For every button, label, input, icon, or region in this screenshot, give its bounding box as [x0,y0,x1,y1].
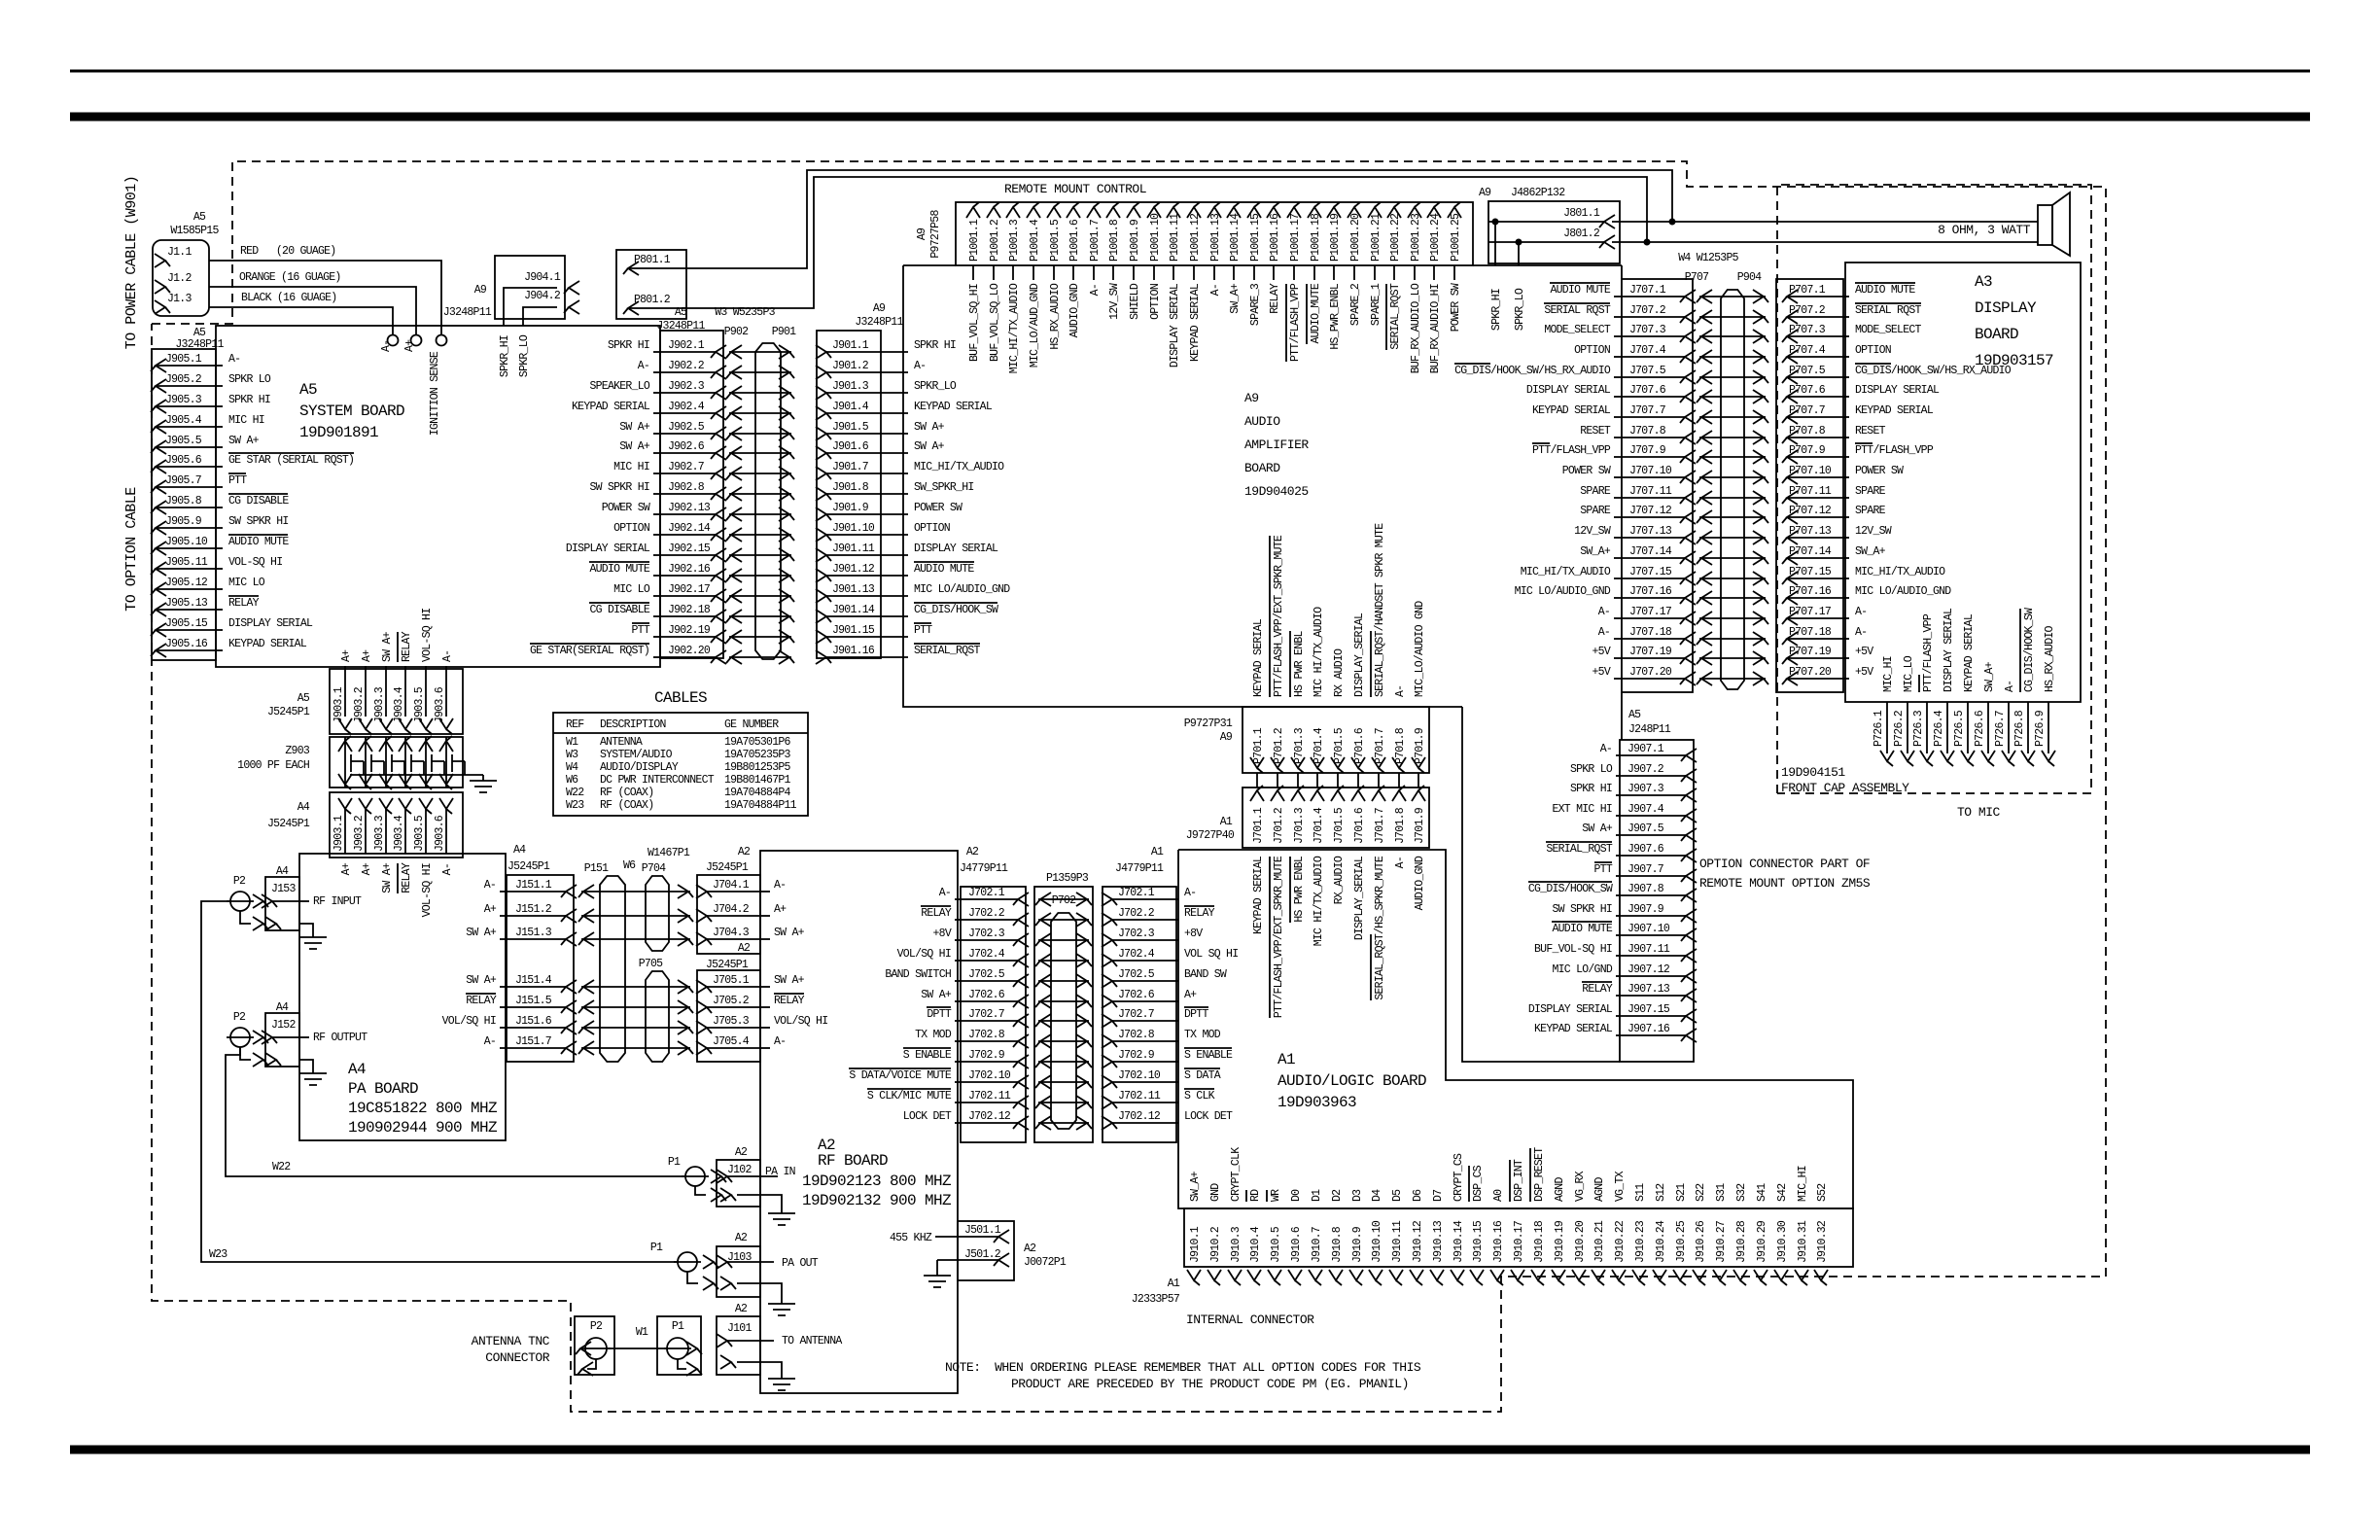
connector J152 RF OUTPUT [262,1001,367,1067]
svg-text:W23: W23 [209,1248,227,1261]
svg-text:J702.6: J702.6 [968,989,1005,1001]
svg-text:SHIELD: SHIELD [1129,283,1141,320]
svg-text:J151.4: J151.4 [515,974,552,987]
svg-text:D0: D0 [1290,1189,1303,1202]
wire S11 A1 to J910.23 [1634,1183,1647,1202]
svg-text:19A704884P4: 19A704884P4 [724,787,791,799]
svg-text:VG_RX: VG_RX [1574,1171,1587,1202]
svg-text:19A705301P6: 19A705301P6 [724,736,791,749]
svg-text:PTT/FLASH_VPP: PTT/FLASH_VPP [1855,444,1934,457]
svg-text:A9: A9 [474,284,487,297]
board A9 AUDIO AMPLIFIER BOARD 19D904025 [903,265,1622,1062]
svg-text:A-: A- [774,879,786,892]
wire DSP_INT A1 to J910.17 [1510,1159,1525,1202]
svg-text:OPTION: OPTION [1149,284,1162,320]
wire D0 A1 to J910.6 [1290,1189,1303,1202]
svg-text:J910.15: J910.15 [1472,1220,1485,1263]
svg-text:J705.3: J705.3 [713,1015,750,1028]
svg-text:A+: A+ [340,649,353,662]
connector J501 (A2 J0072P1) 455 KHZ [890,1221,1067,1280]
svg-text:J702.9: J702.9 [1118,1049,1155,1062]
svg-text:RELAY: RELAY [466,995,497,1007]
svg-text:+8V: +8V [933,927,952,940]
svg-text:P707.6: P707.6 [1789,384,1826,397]
svg-text:TX MOD: TX MOD [915,1029,952,1041]
svg-text:P801.1: P801.1 [634,254,671,266]
connector J702 (A1 J4729P11) [1102,887,1238,1142]
svg-text:ANTENNA: ANTENNA [600,736,643,749]
wire VOL-SQ HI into PA board [421,863,434,917]
svg-text:J702.8: J702.8 [1118,1029,1155,1041]
wire MIC_LO display board to P726.2 [1893,655,1915,766]
svg-text:J5245P1: J5245P1 [267,706,310,718]
svg-text:J902.5: J902.5 [668,421,705,434]
svg-text:P726.8: P726.8 [2013,710,2026,747]
svg-text:A-: A- [2004,681,2016,692]
svg-text:SW_A+: SW_A+ [1855,545,1886,558]
svg-text:KEYPAD SERIAL: KEYPAD SERIAL [1252,618,1265,697]
svg-text:P1001.10: P1001.10 [1149,213,1162,262]
svg-text:J707.1: J707.1 [1629,284,1666,297]
svg-text:J901.2: J901.2 [832,360,869,372]
svg-text:A-: A- [1184,887,1196,899]
svg-text:A1: A1 [1168,1277,1180,1290]
svg-text:A9: A9 [1220,731,1233,744]
wire HS_PWR_ENBL P1001.19 into A9 [1329,265,1342,350]
svg-text:8 OHM, 3 WATT: 8 OHM, 3 WATT [1938,223,2031,237]
svg-text:SPARE_2: SPARE_2 [1349,283,1362,326]
svg-text:J902.13: J902.13 [668,502,711,514]
label A2 J5245P1 at J704 [706,846,751,874]
svg-text:J910.6: J910.6 [1290,1226,1303,1263]
wire POWER SW P1001.25 into A9 [1450,265,1462,332]
wire WR A1 to J910.5 [1267,1189,1282,1202]
svg-text:P726.2: P726.2 [1893,710,1906,747]
svg-text:A-: A- [1598,626,1610,639]
svg-text:J910.16: J910.16 [1492,1220,1505,1263]
wire A- J701.8 into A1 [1394,857,1407,868]
svg-text:J901.5: J901.5 [832,421,869,434]
svg-text:SERIAL RQST: SERIAL RQST [1855,304,1922,317]
svg-text:MIC HI: MIC HI [613,461,649,473]
ground at J153 [299,924,327,949]
svg-text:SPARE: SPARE [1855,485,1886,498]
svg-text:J2333P57: J2333P57 [1132,1293,1179,1306]
svg-text:A1: A1 [1151,846,1164,858]
connector J907 (A5 J3248P11 option connector) [1528,740,1697,1062]
svg-text:RELAY: RELAY [921,907,952,920]
wire AGND A1 to J910.21 [1593,1177,1606,1202]
svg-text:RF (COAX): RF (COAX) [600,787,653,799]
speaker 8 OHM 3 WATT [1938,192,2070,256]
svg-text:TO MIC: TO MIC [1957,805,2001,820]
svg-text:J707.8: J707.8 [1629,425,1666,437]
svg-text:A-: A- [1394,685,1407,697]
svg-text:P2: P2 [233,1011,246,1024]
junction dots remote bus [1644,219,1674,244]
svg-text:J5245P1: J5245P1 [267,818,310,830]
svg-text:GE STAR (SERIAL RQST): GE STAR (SERIAL RQST) [228,454,354,467]
wire W23 coax [201,901,678,1262]
svg-text:J901.14: J901.14 [832,604,875,616]
svg-text:PA OUT: PA OUT [782,1257,819,1270]
svg-text:DPTT: DPTT [1184,1008,1208,1021]
svg-text:J901.12: J901.12 [832,563,875,576]
svg-text:VOL/SQ HI: VOL/SQ HI [442,1015,496,1028]
svg-text:MIC_LO/AUDIO GND: MIC_LO/AUDIO GND [1414,601,1426,697]
svg-text:J907.2: J907.2 [1627,763,1664,776]
svg-text:J1.1: J1.1 [167,246,192,259]
svg-text:P2: P2 [590,1320,603,1333]
svg-text:P1001.8: P1001.8 [1108,219,1121,262]
svg-text:A-: A- [380,340,393,352]
svg-text:MIC_LO/AUD_GND: MIC_LO/AUD_GND [1029,283,1041,367]
svg-text:SW A+: SW A+ [774,927,805,939]
svg-text:J905.3: J905.3 [165,394,202,406]
wire KEYPAD SERIAL J701.1 into A1 [1252,856,1265,934]
svg-text:J151.3: J151.3 [515,927,552,939]
svg-text:19D901891: 19D901891 [299,424,378,441]
svg-text:P1: P1 [650,1242,663,1254]
svg-text:S CLK: S CLK [1184,1090,1215,1102]
wire AUDIO_GND P1001.6 into A9 [1068,265,1081,337]
wire KEYPAD SERIAL display board to P726.5 [1953,613,1976,766]
svg-text:J1.2: J1.2 [167,272,192,285]
wire P801.1 remote mount bus [686,170,1672,268]
svg-text:DPTT: DPTT [927,1008,951,1021]
svg-text:+5V: +5V [1855,666,1873,679]
svg-text:OPTION: OPTION [613,522,649,535]
svg-text:J903.3: J903.3 [373,686,386,723]
wire SHIELD P1001.9 into A9 [1129,265,1141,320]
svg-text:AUDIO MUTE: AUDIO MUTE [1550,284,1610,297]
wire S31 A1 to J910.27 [1715,1183,1728,1202]
connector P707 (front cap) [1776,279,2012,692]
svg-text:HS PWR ENBL: HS PWR ENBL [1293,856,1306,923]
svg-text:J902.3: J902.3 [668,380,705,393]
svg-text:DISPLAY: DISPLAY [1975,299,2037,317]
svg-text:J902.16: J902.16 [668,563,711,576]
svg-text:SPKR HI: SPKR HI [228,394,270,406]
svg-text:J101: J101 [727,1322,752,1335]
wire S41 A1 to J910.29 [1756,1183,1768,1202]
wire PTT/FLASH_VPP/EXT_SPKR_MUTE J701.2 into A1 [1270,856,1285,1018]
svg-text:SPKR HI: SPKR HI [914,339,956,352]
cable W6 W1467P1 twisted pairs [578,847,693,1062]
svg-text:P1001.20: P1001.20 [1349,213,1362,262]
wire J801.2 to speaker [1612,241,2038,243]
svg-text:OPTION: OPTION [1574,344,1610,357]
svg-text:J102: J102 [727,1164,752,1176]
coax plug P2 at J153 [227,875,268,930]
svg-text:MIC_HI/TX_AUDIO: MIC_HI/TX_AUDIO [914,461,1004,473]
svg-text:CABLES: CABLES [654,689,707,707]
svg-text:SW_A+: SW_A+ [1983,661,1996,692]
svg-text:SPARE: SPARE [1580,485,1611,498]
svg-text:J910.12: J910.12 [1412,1220,1424,1263]
svg-text:J910.9: J910.9 [1351,1226,1364,1263]
svg-text:DISPLAY SERIAL: DISPLAY SERIAL [566,542,650,555]
connector J151 (A4 J5245P1) [442,875,577,1062]
svg-text:HS_RX_AUDIO: HS_RX_AUDIO [2044,625,2056,692]
svg-text:SPKR LO: SPKR LO [1570,763,1613,776]
svg-text:J903.1: J903.1 [332,686,345,723]
svg-text:P1: P1 [672,1320,684,1333]
svg-text:J910.28: J910.28 [1735,1220,1748,1263]
svg-text:SPEAKER_LO: SPEAKER_LO [589,380,649,393]
svg-text:A+: A+ [484,903,497,916]
svg-text:A2: A2 [738,942,751,955]
svg-text:W23: W23 [566,799,584,812]
coax plug P2 at J152 [227,1011,268,1067]
svg-text:J903.6: J903.6 [434,686,446,723]
wire SW A+ system board to J903 [381,631,394,717]
svg-text:KEYPAD SERIAL: KEYPAD SERIAL [1855,404,1934,417]
svg-text:J910.22: J910.22 [1614,1220,1627,1263]
svg-text:J910.3: J910.3 [1230,1226,1242,1263]
svg-text:A5: A5 [297,692,310,705]
svg-text:J702.7: J702.7 [968,1008,1004,1021]
svg-text:KEYPAD SERIAL: KEYPAD SERIAL [1532,404,1611,417]
svg-text:SW A+: SW A+ [774,974,805,987]
svg-text:J905.16: J905.16 [165,638,208,650]
wire A- display board to P726.7 [1994,681,2016,766]
connector J704 (A2 J5245P1) [696,875,805,955]
connector J103 PA OUT [717,1232,819,1297]
svg-text:J702.2: J702.2 [968,907,1005,920]
svg-text:P151: P151 [584,862,609,875]
svg-text:SPKR_LO: SPKR_LO [914,380,957,393]
svg-text:J707.13: J707.13 [1629,525,1672,538]
svg-text:WR: WR [1270,1189,1282,1202]
wire SPKR_HI J904.1 [499,288,557,377]
svg-text:PTT/FLASH_VPP/EXT_SPKR_MUTE: PTT/FLASH_VPP/EXT_SPKR_MUTE [1273,856,1285,1018]
wire S32 A1 to J910.28 [1735,1183,1748,1202]
svg-text:+5V: +5V [1592,646,1611,658]
svg-text:P707.4: P707.4 [1789,344,1826,357]
svg-text:J910.20: J910.20 [1574,1220,1587,1263]
cable W1 antenna [607,1326,667,1348]
svg-text:J151.6: J151.6 [515,1015,552,1028]
svg-text:PTT: PTT [228,474,247,487]
svg-text:J701.3: J701.3 [1293,807,1306,844]
svg-text:SERIAL RQST: SERIAL RQST [1544,304,1611,317]
svg-text:POWER SW: POWER SW [914,502,962,514]
svg-text:J701.2: J701.2 [1273,807,1285,844]
svg-text:EXT MIC HI: EXT MIC HI [1552,803,1612,816]
svg-text:DC PWR INTERCONNECT: DC PWR INTERCONNECT [600,774,715,787]
svg-text:A5: A5 [193,211,206,224]
svg-text:A+: A+ [361,649,373,662]
svg-text:AGND: AGND [1554,1177,1566,1202]
svg-text:J910.1: J910.1 [1189,1226,1202,1263]
svg-text:J702.7: J702.7 [1118,1008,1154,1021]
wire HS_RX_AUDIO P1001.5 into A9 [1049,265,1062,350]
svg-text:J707.14: J707.14 [1629,545,1672,558]
svg-text:KEYPAD SERIAL: KEYPAD SERIAL [1252,856,1265,934]
svg-text:P1001.12: P1001.12 [1189,213,1202,262]
svg-text:P1001.11: P1001.11 [1169,213,1181,262]
svg-text:DSP_CS: DSP_CS [1472,1165,1485,1202]
svg-text:MIC LO/AUDIO_GND: MIC LO/AUDIO_GND [1515,585,1611,598]
svg-text:J801.1: J801.1 [1563,207,1600,220]
svg-text:MIC LO: MIC LO [228,577,265,589]
svg-text:J907.3: J907.3 [1627,783,1664,795]
svg-text:J907.8: J907.8 [1627,883,1664,895]
wire BUF_VOL_SQ_LO P1001.2 into A9 [989,265,1001,362]
svg-text:GE NUMBER: GE NUMBER [724,718,779,731]
svg-text:J902.7: J902.7 [668,461,704,473]
svg-text:SPKR HI: SPKR HI [1570,783,1612,795]
svg-text:J910.30: J910.30 [1776,1220,1789,1263]
svg-text:S21: S21 [1675,1183,1688,1202]
svg-text:SPKR_LO: SPKR_LO [518,334,531,377]
svg-text:J151.1: J151.1 [515,879,552,892]
svg-text:RELAY: RELAY [1582,983,1613,996]
svg-text:P707.9: P707.9 [1789,444,1826,457]
svg-text:J3248P11: J3248P11 [443,306,492,319]
svg-text:KEYPAD SERIAL: KEYPAD SERIAL [1963,613,1976,692]
svg-text:ANTENNA TNC: ANTENNA TNC [472,1334,550,1348]
wire PTT/FLASH_VPP/EXT_SPKR_MUTE A9 to P701.2 [1270,535,1285,697]
svg-text:SW SPKR HI: SW SPKR HI [228,515,289,528]
connector J903 (A5 J5245P1) [267,669,463,734]
svg-text:J905.5: J905.5 [165,435,202,447]
svg-text:J901.4: J901.4 [832,401,869,413]
svg-text:A5: A5 [299,381,317,399]
svg-text:19D902123 800 MHZ: 19D902123 800 MHZ [802,1172,952,1190]
wire CG_DIS/HOOK_SW display board to P726.8 [2013,608,2036,766]
svg-text:J903.4: J903.4 [393,815,405,852]
svg-text:P707.2: P707.2 [1789,304,1826,317]
svg-text:A-: A- [1855,606,1867,618]
svg-text:J702.3: J702.3 [1118,927,1155,940]
wire DSP_RESET A1 to J910.18 [1530,1147,1546,1202]
svg-text:SERIAL_RQST: SERIAL_RQST [914,645,981,657]
svg-text:A4: A4 [348,1061,366,1078]
svg-text:FRONT CAP ASSEMBLY: FRONT CAP ASSEMBLY [1781,781,1909,795]
wire SW_A+ P1001.14 into A9 [1229,265,1242,314]
svg-text:P1001.22: P1001.22 [1389,213,1402,262]
svg-text:SW_A+: SW_A+ [1229,283,1242,314]
svg-text:A-: A- [638,360,649,372]
svg-text:RF OUTPUT: RF OUTPUT [313,1032,367,1044]
svg-text:A-: A- [1598,606,1610,618]
svg-text:J152: J152 [271,1019,296,1032]
svg-text:J910.19: J910.19 [1554,1220,1566,1263]
wire HS PWR ENBL J701.3 into A1 [1290,856,1306,923]
wire PTT/FLASH_VPP display board to P726.3 [1912,613,1935,766]
svg-text:MIC LO: MIC LO [613,583,650,596]
svg-text:PTT/FLASH_VPP: PTT/FLASH_VPP [1289,283,1302,362]
svg-text:A4: A4 [276,865,289,878]
svg-text:J901.16: J901.16 [832,645,875,657]
svg-text:TO POWER CABLE (W901): TO POWER CABLE (W901) [123,176,140,350]
svg-text:J707.17: J707.17 [1629,606,1671,618]
svg-text:J707.12: J707.12 [1629,505,1672,517]
svg-text:J903.5: J903.5 [413,686,426,723]
svg-text:SYSTEM/AUDIO: SYSTEM/AUDIO [600,749,673,761]
svg-text:J707.15: J707.15 [1629,566,1672,578]
connector J153 RF INPUT [262,865,362,930]
svg-text:P2: P2 [233,875,246,888]
wire SW_A+ A1 to J910.1 [1189,1171,1202,1202]
svg-text:AUDIO MUTE: AUDIO MUTE [914,563,974,576]
wire RELAY P1001.16 into A9 [1269,265,1281,314]
svg-text:J702.3: J702.3 [968,927,1005,940]
svg-text:J902.15: J902.15 [668,542,711,555]
wire A0 A1 to J910.16 [1492,1189,1505,1202]
svg-text:AUDIO_GND: AUDIO_GND [1414,856,1426,910]
svg-text:OPTION CONNECTOR PART OF: OPTION CONNECTOR PART OF [1699,857,1870,871]
svg-text:DISPLAY SERIAL: DISPLAY SERIAL [1528,1003,1613,1016]
wire RELAY into PA board [398,862,413,893]
wire D7 A1 to J910.13 [1432,1190,1445,1202]
label A5 J248P11 (J907) [1628,709,1671,736]
svg-text:LOCK DET: LOCK DET [903,1110,952,1123]
svg-text:POWER SW: POWER SW [602,502,650,514]
svg-text:J907.12: J907.12 [1627,963,1670,976]
svg-text:D4: D4 [1371,1189,1383,1202]
wire A- A9 to P701.8 [1394,685,1407,697]
svg-text:J248P11: J248P11 [1628,723,1671,736]
wire D6 A1 to J910.12 [1412,1189,1424,1202]
svg-text:J910.24: J910.24 [1655,1220,1667,1263]
coax plug P1 at J103 [650,1242,718,1290]
wire SW_A+ display board to P726.6 [1974,661,1996,766]
svg-text:SW A+: SW A+ [228,435,260,447]
svg-text:J905.2: J905.2 [165,373,202,386]
svg-text:KEYPAD SERIAL: KEYPAD SERIAL [572,401,650,413]
wire VG_RX A1 to J910.20 [1574,1171,1587,1202]
svg-text:PTT/FLASH_VPP: PTT/FLASH_VPP [1922,613,1935,692]
svg-text:A4: A4 [297,801,310,814]
svg-text:A2: A2 [735,1146,748,1159]
svg-text:P1001.1: P1001.1 [968,219,981,262]
svg-text:P726.3: P726.3 [1912,710,1925,747]
svg-text:J902.6: J902.6 [668,440,705,453]
svg-text:J910.14: J910.14 [1452,1220,1465,1263]
svg-text:S12: S12 [1655,1183,1667,1202]
svg-text:OPTION: OPTION [1855,344,1891,357]
svg-text:A4: A4 [276,1001,289,1014]
dashed front cap assembly box [1777,185,2091,793]
svg-text:VOL/SQ HI: VOL/SQ HI [774,1015,827,1028]
wire MIC HI/TX_AUDIO J701.4 into A1 [1312,856,1325,946]
svg-text:P1001.5: P1001.5 [1049,219,1062,262]
svg-text:+5V: +5V [1855,646,1873,658]
ground at J101 pin 2 [737,1362,795,1390]
svg-text:J3248P11: J3248P11 [656,320,705,332]
svg-text:D6: D6 [1412,1189,1424,1202]
svg-text:J5245P1: J5245P1 [706,861,749,874]
svg-text:MIC_HI/TX_AUDIO: MIC_HI/TX_AUDIO [1008,283,1021,373]
svg-text:+8V: +8V [1184,927,1203,940]
wire DISPLAY SERIAL display board to P726.4 [1933,608,1955,766]
svg-text:MIC HI/TX_AUDIO: MIC HI/TX_AUDIO [1312,856,1325,946]
connector P1001 (A9 P9727P58) remote mount control [916,202,1473,265]
board A3 DISPLAY BOARD 19D903157 [1845,262,2081,702]
svg-text:BLACK (16 GUAGE): BLACK (16 GUAGE) [241,292,336,304]
cable P1359P3 (P702) [1034,872,1093,1142]
svg-text:SW A+: SW A+ [466,927,497,939]
label OPTION CONNECTOR PART OF REMOTE MOUNT OPTION ZM5S [1699,857,1871,891]
svg-text:AUDIO MUTE: AUDIO MUTE [1552,923,1612,935]
svg-text:W4 W1253P5: W4 W1253P5 [1678,252,1738,264]
svg-text:J707.4: J707.4 [1629,344,1666,357]
svg-text:VOL-SQ HI: VOL-SQ HI [421,863,434,917]
svg-text:19C851822 800 MHZ: 19C851822 800 MHZ [348,1100,498,1117]
